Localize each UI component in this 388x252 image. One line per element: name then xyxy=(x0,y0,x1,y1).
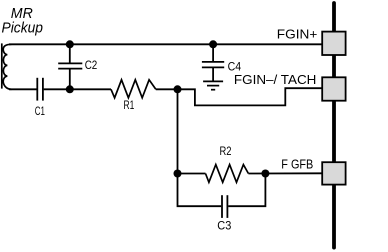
svg-text:F GFB: F GFB xyxy=(281,156,313,171)
svg-text:R2: R2 xyxy=(220,144,232,158)
svg-text:C1: C1 xyxy=(35,104,45,118)
svg-text:R1: R1 xyxy=(124,98,135,112)
svg-text:Pickup: Pickup xyxy=(2,19,44,36)
svg-text:C2: C2 xyxy=(85,58,98,72)
svg-text:FGIN–/ TACH: FGIN–/ TACH xyxy=(234,72,317,87)
svg-text:C3: C3 xyxy=(217,218,231,232)
svg-text:FGIN+: FGIN+ xyxy=(277,27,318,42)
